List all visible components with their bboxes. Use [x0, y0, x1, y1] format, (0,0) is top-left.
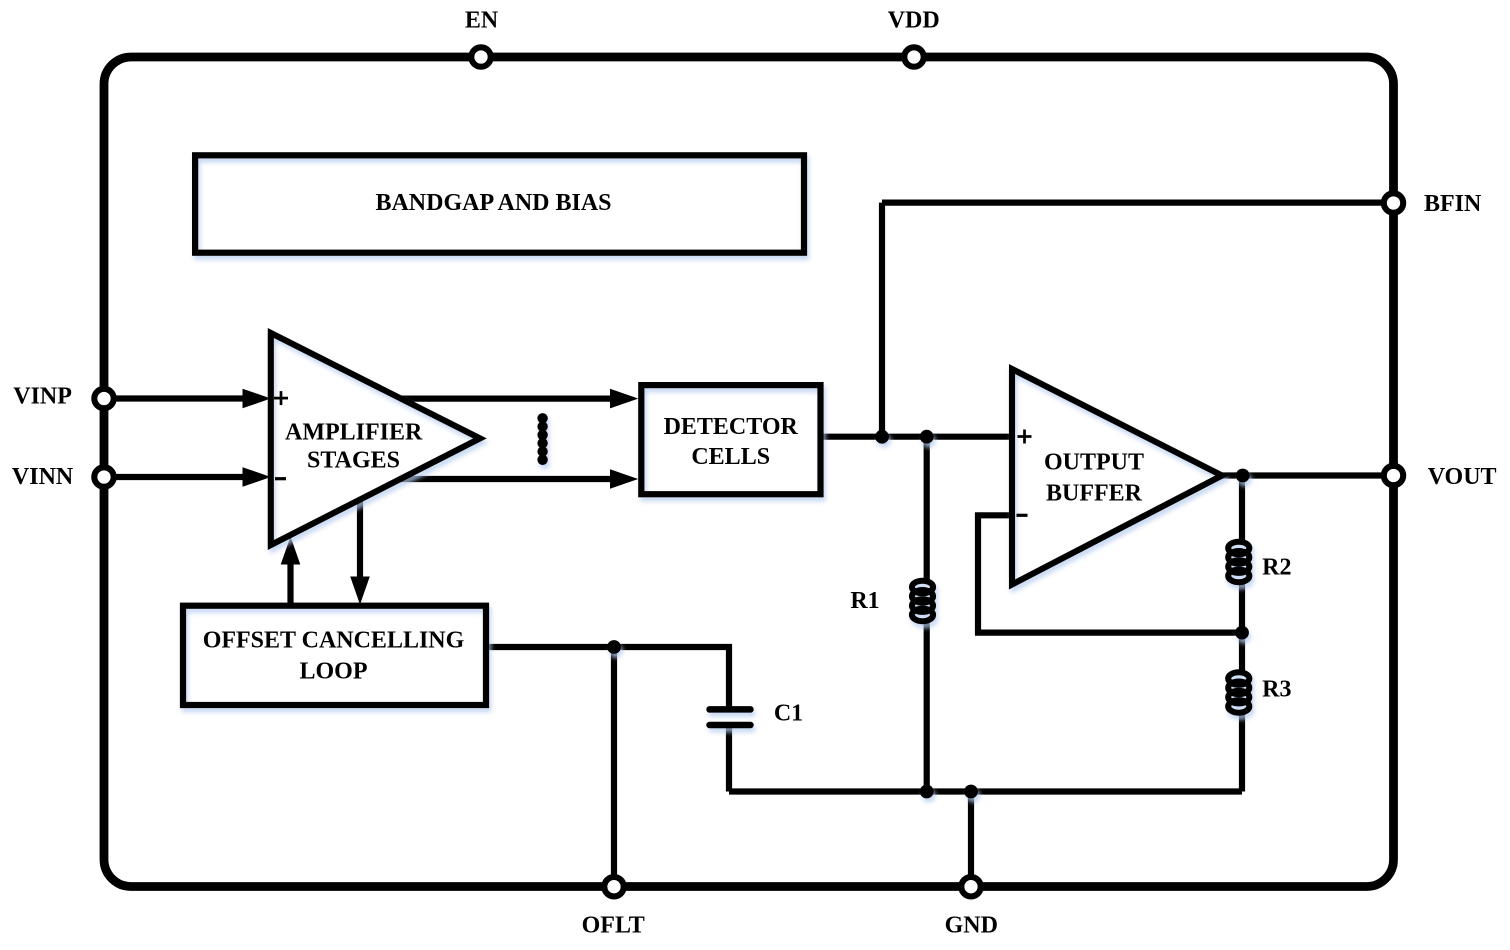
- wire bottom net: [729, 788, 1242, 794]
- wire R2 top: [1239, 476, 1245, 544]
- svg-text:R1: R1: [850, 588, 879, 614]
- wire amplifier to offset loop (down arrow): [357, 500, 363, 578]
- wire BFIN net vertical: [879, 203, 885, 437]
- wire amplifier bottom output to detector: [400, 476, 612, 482]
- pin VINN: [94, 467, 113, 486]
- block OFFSET CANCELLING LOOP: [183, 606, 486, 705]
- svg-text:AMPLIFIER: AMPLIFIER: [285, 420, 423, 446]
- stage ellipsis dots: [537, 413, 547, 465]
- pin VOUT: [1384, 466, 1403, 485]
- wire R1 top: [924, 437, 930, 582]
- pin VINP: [94, 389, 113, 408]
- op-amp + input mark (amplifier): [274, 391, 288, 405]
- pin OFLT: [604, 877, 623, 896]
- wire R3 bottom: [1239, 711, 1245, 792]
- chip outline: [104, 57, 1394, 887]
- svg-text:VOUT: VOUT: [1428, 464, 1497, 490]
- junction node detector/R1: [920, 430, 934, 444]
- resistor R2 coil: [1228, 542, 1249, 583]
- svg-text:CELLS: CELLS: [691, 444, 770, 470]
- op-amp AMPLIFIER STAGES: [271, 333, 480, 545]
- svg-text:R3: R3: [1262, 676, 1291, 702]
- svg-text:STAGES: STAGES: [307, 447, 400, 473]
- junction node bottom/GND: [964, 785, 978, 799]
- pin VDD: [904, 47, 923, 66]
- capacitor C1 plates: [710, 709, 751, 725]
- junction node buffer output: [1236, 469, 1250, 483]
- resistor R3 coil: [1228, 672, 1249, 713]
- block BANDGAP AND BIAS: [195, 155, 804, 252]
- op-amp + input mark (buffer): [1018, 430, 1032, 444]
- wire VINP to amplifier + input: [104, 395, 245, 401]
- wire amplifier top output to detector: [400, 396, 613, 402]
- svg-text:BUFFER: BUFFER: [1046, 481, 1143, 507]
- svg-text:BANDGAP AND BIAS: BANDGAP AND BIAS: [375, 190, 611, 216]
- svg-text:OFLT: OFLT: [582, 913, 645, 939]
- svg-text:GND: GND: [945, 913, 998, 939]
- pin BFIN: [1384, 193, 1403, 212]
- svg-text:VINP: VINP: [13, 383, 72, 409]
- svg-text:OFFSET CANCELLING: OFFSET CANCELLING: [203, 628, 465, 654]
- wire offset loop output: [488, 647, 729, 707]
- wire VINN to amplifier - input: [104, 474, 245, 480]
- wire R1 bottom: [924, 620, 930, 792]
- op-amp - input mark (buffer): [1017, 514, 1028, 517]
- svg-text:DETECTOR: DETECTOR: [664, 414, 799, 440]
- svg-text:OUTPUT: OUTPUT: [1044, 450, 1144, 476]
- junction node bottom/R1: [920, 785, 934, 799]
- wire C1 bottom stub: [726, 727, 732, 792]
- svg-text:R2: R2: [1262, 555, 1291, 581]
- junction node detector/BFIN: [875, 430, 889, 444]
- svg-text:BFIN: BFIN: [1424, 191, 1482, 217]
- svg-text:VDD: VDD: [888, 8, 940, 34]
- wire GND net: [968, 792, 974, 887]
- svg-text:LOOP: LOOP: [299, 659, 367, 685]
- svg-text:C1: C1: [774, 701, 803, 727]
- wire R3 top: [1239, 633, 1245, 673]
- svg-text:EN: EN: [465, 8, 499, 34]
- junction node offset/OFLT: [607, 640, 621, 654]
- wire detector output to output buffer + input: [823, 434, 1012, 440]
- block DETECTOR CELLS: [641, 385, 820, 494]
- op-amp - input mark (amplifier): [275, 477, 286, 480]
- pin EN: [471, 47, 490, 66]
- wire BFIN net horizontal: [882, 200, 1394, 206]
- wire R2 bottom: [1239, 581, 1245, 633]
- op-amp OUTPUT BUFFER: [1012, 369, 1222, 585]
- junction node R2/R3: [1235, 626, 1249, 640]
- wire OFLT net: [611, 647, 617, 886]
- svg-text:VINN: VINN: [12, 464, 74, 490]
- resistor R1 coil: [912, 581, 933, 622]
- wire offset loop to amplifier (up arrow): [287, 562, 293, 604]
- wire feedback from - input: [978, 515, 1242, 632]
- pin GND: [961, 877, 980, 896]
- wire output buffer to VOUT: [1222, 472, 1394, 478]
